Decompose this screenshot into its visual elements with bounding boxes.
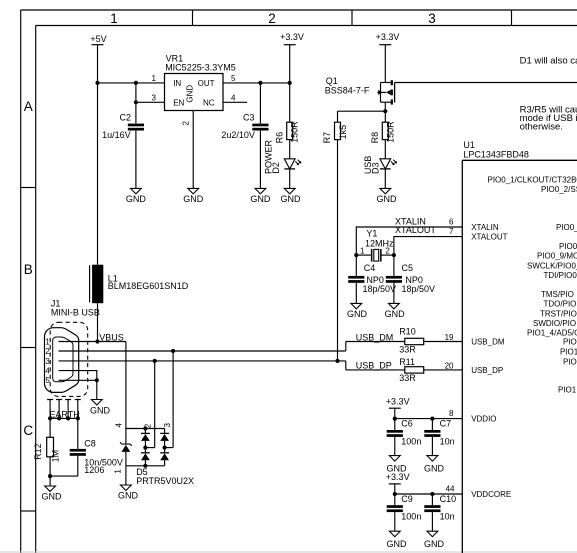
svg-text:18p/50V: 18p/50V xyxy=(402,284,436,294)
junction D5 right mid xyxy=(163,446,167,450)
junction D- to D5 xyxy=(171,349,175,353)
capacitor C10 xyxy=(424,494,456,531)
wire J1 pin2 USB D- xyxy=(59,350,346,352)
transistor Q1 xyxy=(325,76,395,105)
svg-text:2: 2 xyxy=(268,11,276,26)
junction VDDCORE/C9 xyxy=(393,492,397,496)
svg-text:150R: 150R xyxy=(385,121,395,143)
svg-text:EARTH: EARTH xyxy=(49,409,79,419)
+3.3V supply above Q1 xyxy=(376,32,400,83)
wire Q1 gate to right edge (to D1) xyxy=(395,82,577,84)
svg-text:C6: C6 xyxy=(401,419,413,429)
svg-text:D3: D3 xyxy=(370,163,380,175)
wire XTALIN xyxy=(356,227,462,255)
svg-text:USB_DP: USB_DP xyxy=(471,366,503,375)
svg-text:IN: IN xyxy=(173,79,181,88)
svg-text:1: 1 xyxy=(110,11,118,26)
svg-text:XTALOUT: XTALOUT xyxy=(471,232,507,241)
wire EARTH bus xyxy=(50,417,78,419)
svg-text:A: A xyxy=(24,99,33,114)
junctions EARTH bus xyxy=(48,416,80,420)
svg-text:USB_DP: USB_DP xyxy=(356,361,392,371)
svg-text:GND: GND xyxy=(126,194,147,204)
ground under C5 xyxy=(385,303,406,318)
svg-text:2: 2 xyxy=(181,120,190,125)
svg-text:R10: R10 xyxy=(399,327,416,337)
ground under C4 xyxy=(347,303,368,318)
svg-text:GND: GND xyxy=(387,539,408,549)
junction R7/USB_DP xyxy=(335,359,339,363)
ground under J1 xyxy=(90,400,111,416)
svg-text:2u2/10V: 2u2/10V xyxy=(221,130,255,140)
ground under VR1 xyxy=(183,188,204,203)
connector J1 MINI-B USB xyxy=(45,298,100,396)
svg-text:33R: 33R xyxy=(399,373,416,383)
ground under R12 xyxy=(42,486,63,501)
+3.3V supply VDDIO xyxy=(386,397,410,419)
svg-text:SWCLK/PIO0_: SWCLK/PIO0_ xyxy=(527,261,577,270)
svg-text:TDO/PIO: TDO/PIO xyxy=(544,300,577,309)
wire +5V rail to VR1 IN xyxy=(98,82,165,84)
svg-text:7: 7 xyxy=(449,227,454,236)
junction VBUS/L1 xyxy=(95,339,99,343)
IC U1 LPC1343FBD48 xyxy=(462,140,577,553)
wire J1 pin5 xyxy=(59,379,97,381)
svg-text:PIO0_9/MO: PIO0_9/MO xyxy=(537,252,577,261)
diode D5d lower right xyxy=(160,448,169,466)
voltage regulator VR1 xyxy=(152,53,236,125)
svg-text:100n: 100n xyxy=(401,512,421,522)
junction XTALOUT/C5 xyxy=(392,253,396,257)
svg-text:OUT: OUT xyxy=(198,79,215,88)
wire R7 down to USB_DP net xyxy=(337,140,339,361)
svg-text:XTALOUT: XTALOUT xyxy=(395,225,436,235)
svg-text:MINI-B USB: MINI-B USB xyxy=(51,308,100,318)
junction Q1 drain xyxy=(383,109,387,113)
junction D5 left mid xyxy=(143,446,147,450)
svg-text:C8: C8 xyxy=(84,438,96,448)
svg-text:4: 4 xyxy=(45,367,50,376)
ferrite bead L1 xyxy=(90,83,189,342)
wire link to right column xyxy=(165,447,174,449)
svg-text:XTALIN: XTALIN xyxy=(471,223,499,232)
svg-text:PIO0_6/: PIO0_6/ xyxy=(556,223,577,232)
capacitor C9 xyxy=(387,494,422,531)
svg-text:C3: C3 xyxy=(243,113,255,123)
wire D- link to left column xyxy=(145,447,154,449)
wire D3 to ground xyxy=(384,169,386,189)
svg-text:+5V: +5V xyxy=(90,34,106,44)
junction C10 xyxy=(430,492,434,496)
svg-text:R8: R8 xyxy=(370,132,380,144)
wire J1 pin3 USB D+ xyxy=(59,360,346,362)
svg-text:PIO0: PIO0 xyxy=(559,242,577,251)
svg-text:EN: EN xyxy=(173,98,184,107)
svg-text:PIO: PIO xyxy=(563,337,577,346)
svg-text:C9: C9 xyxy=(401,494,413,504)
svg-text:GND: GND xyxy=(185,85,194,103)
svg-text:GND: GND xyxy=(424,463,445,473)
resistor R12 xyxy=(33,437,61,462)
J1 shield pins xyxy=(47,400,81,419)
junction top rail xyxy=(143,426,147,430)
svg-text:1k5: 1k5 xyxy=(338,125,348,140)
junction D+ to D5 xyxy=(153,359,157,363)
svg-text:5: 5 xyxy=(45,376,50,385)
LED D2 POWER xyxy=(264,140,302,175)
svg-text:BLM18EG601SN1D: BLM18EG601SN1D xyxy=(108,281,189,291)
wire +3.3V node down to R6 xyxy=(289,83,291,122)
LED D3 USB xyxy=(363,156,396,175)
svg-text:BSS84-7-F: BSS84-7-F xyxy=(325,86,370,96)
svg-text:C: C xyxy=(23,423,33,438)
+3.3V supply at regulator output xyxy=(280,32,304,83)
svg-text:1: 1 xyxy=(152,74,157,83)
svg-text:44: 44 xyxy=(446,484,455,493)
svg-text:SWDIO/PIO: SWDIO/PIO xyxy=(533,319,576,328)
wire Q1 drain down xyxy=(384,102,386,111)
svg-text:TDI/PIO0: TDI/PIO0 xyxy=(544,271,577,280)
svg-text:10n: 10n xyxy=(440,512,455,522)
svg-text:1u/16V: 1u/16V xyxy=(102,130,131,140)
junction at +5V rail xyxy=(95,81,99,85)
capacitor C4 xyxy=(348,255,396,303)
diode D5b lower left xyxy=(141,448,150,466)
wire to ground xyxy=(49,476,51,486)
wire VR1 pin2 to ground xyxy=(192,111,194,189)
diode D5a upper left xyxy=(141,429,150,448)
svg-text:PIO1_4/AD5/C: PIO1_4/AD5/C xyxy=(527,329,577,338)
U1 pin numbers xyxy=(445,217,455,493)
svg-text:R11: R11 xyxy=(399,357,415,367)
diode array D5 PRTR5V0U2X xyxy=(114,423,194,486)
junction EN/C2 xyxy=(134,100,138,104)
svg-text:VDDCORE: VDDCORE xyxy=(471,490,511,499)
junction VDDIO/C6 xyxy=(393,417,397,421)
svg-text:GND: GND xyxy=(281,194,302,204)
svg-text:4: 4 xyxy=(231,93,236,102)
svg-text:18p/50V: 18p/50V xyxy=(363,284,397,294)
wire J1 pin1 VBUS xyxy=(59,341,126,343)
svg-text:+3.3V: +3.3V xyxy=(280,32,304,42)
capacitor C7 xyxy=(424,419,454,456)
svg-text:3: 3 xyxy=(152,93,157,102)
capacitor C8 xyxy=(70,438,123,476)
wire C8 top xyxy=(77,418,79,449)
ground under C2 xyxy=(126,188,147,203)
svg-text:1: 1 xyxy=(45,337,50,346)
svg-text:MIC5225-3.3YM5: MIC5225-3.3YM5 xyxy=(165,62,236,72)
svg-text:LPC1343FBD48: LPC1343FBD48 xyxy=(463,149,529,159)
svg-text:6: 6 xyxy=(449,217,454,226)
ground under D3 xyxy=(377,188,398,203)
wire R11 to U1 pin20 xyxy=(424,369,463,371)
junction C7 xyxy=(430,417,434,421)
svg-text:PIO1: PIO1 xyxy=(560,348,577,357)
wire jog D- xyxy=(345,342,347,352)
svg-text:C5: C5 xyxy=(402,263,414,273)
wire VDDCORE to U1 pin44 xyxy=(395,493,463,495)
svg-text:33R: 33R xyxy=(399,345,416,355)
junction bottom bus xyxy=(48,474,52,478)
wire R8 to D3 xyxy=(384,140,386,159)
wire D+ branch down to D5 pin3 xyxy=(154,361,156,448)
svg-text:USB_DM: USB_DM xyxy=(356,332,394,342)
note R3/R5 xyxy=(520,105,577,133)
ground under D5 xyxy=(118,485,139,500)
capacitor C3 xyxy=(221,83,268,188)
wire D2 to ground xyxy=(289,169,291,189)
wire VDDIO to U1 pin8 xyxy=(395,418,463,420)
svg-text:GND: GND xyxy=(183,194,204,204)
svg-text:1: 1 xyxy=(114,469,123,474)
svg-text:R6: R6 xyxy=(274,132,284,144)
svg-text:D1 will also cause: D1 will also cause xyxy=(520,55,577,66)
svg-text:PIO0_2/SS: PIO0_2/SS xyxy=(541,185,577,194)
svg-text:C4: C4 xyxy=(364,263,376,273)
svg-text:19: 19 xyxy=(445,333,454,342)
svg-text:PIO0_1/CLKOUT/CT32B0_M: PIO0_1/CLKOUT/CT32B0_M xyxy=(488,175,577,184)
resistor R7 xyxy=(322,122,348,143)
svg-text:GND: GND xyxy=(42,491,63,501)
svg-text:GND: GND xyxy=(250,194,271,204)
crystal Y1 xyxy=(356,228,394,261)
ground under D2 xyxy=(281,188,302,203)
svg-text:3: 3 xyxy=(428,11,436,26)
resistor R8 xyxy=(370,121,395,144)
svg-text:2: 2 xyxy=(45,347,50,356)
svg-text:+3.3V: +3.3V xyxy=(376,32,400,42)
svg-text:1M: 1M xyxy=(51,450,61,463)
svg-text:TMS/PIO: TMS/PIO xyxy=(541,290,574,299)
wire D- branch down to D5 pin2 xyxy=(172,351,174,448)
wire R10 to U1 pin19 xyxy=(424,341,463,343)
wire J1 pin4 xyxy=(59,371,97,381)
wire pin5 to ground xyxy=(96,380,98,399)
svg-text:TRST/PIO: TRST/PIO xyxy=(540,309,577,318)
ground under C10 xyxy=(424,531,445,549)
wire USB_DP to R11 xyxy=(346,369,405,371)
svg-text:NC: NC xyxy=(203,98,215,107)
junction +3.3V/R6 xyxy=(288,81,292,85)
svg-text:D2: D2 xyxy=(271,162,281,174)
junction pin4/pin5 xyxy=(95,378,99,382)
resistor R10 xyxy=(399,327,423,355)
svg-text:5: 5 xyxy=(231,74,236,83)
VR1 NC stub xyxy=(223,101,247,103)
svg-text:otherwise.: otherwise. xyxy=(520,122,563,133)
wire EARTH to R12 xyxy=(49,418,51,437)
capacitor C6 xyxy=(387,419,422,456)
svg-text:4: 4 xyxy=(114,423,123,428)
svg-text:GND: GND xyxy=(424,539,445,549)
resistor R6 xyxy=(274,121,299,144)
svg-text:B: B xyxy=(24,262,33,277)
svg-text:GND: GND xyxy=(118,490,139,500)
ground under C9 xyxy=(387,531,408,549)
wire jog D+ xyxy=(345,361,347,370)
capacitor C5 xyxy=(386,255,435,303)
svg-text:GND: GND xyxy=(385,309,406,319)
svg-text:20: 20 xyxy=(445,361,454,370)
junction at C2/EN branch xyxy=(134,81,138,85)
+3.3V supply VDDCORE xyxy=(386,472,410,494)
wire R12/C8 bottom bus xyxy=(50,475,78,477)
svg-text:USB_DM: USB_DM xyxy=(471,337,505,346)
wire VR1 OUT to +3.3V node xyxy=(223,82,290,84)
resistor R11 xyxy=(399,357,423,383)
svg-text:R12: R12 xyxy=(33,443,43,460)
wire EN to VR1 pin3 xyxy=(136,101,165,103)
wire branch down to EN xyxy=(135,83,137,102)
ground under C7 xyxy=(424,456,445,474)
svg-text:150R: 150R xyxy=(290,121,300,143)
svg-text:PIO1: PIO1 xyxy=(558,386,577,395)
wire drain to R7 xyxy=(338,110,386,112)
wire D5 pin1 to ground xyxy=(125,466,127,485)
svg-text:+3.3V: +3.3V xyxy=(386,472,410,482)
svg-text:C7: C7 xyxy=(440,419,452,429)
wire VBUS down to D5 pin4 xyxy=(125,342,127,429)
svg-text:GND: GND xyxy=(90,405,111,415)
svg-text:2: 2 xyxy=(385,246,390,255)
svg-text:1: 1 xyxy=(360,246,365,255)
svg-text:+3.3V: +3.3V xyxy=(386,397,410,407)
ground under C6 xyxy=(387,456,408,474)
diode D5c upper right xyxy=(160,429,169,448)
svg-text:3: 3 xyxy=(45,357,50,366)
svg-text:GND: GND xyxy=(347,309,368,319)
zener diode in D5 xyxy=(120,429,132,466)
U1 pin labels left side xyxy=(471,223,511,499)
svg-text:R7: R7 xyxy=(322,132,332,144)
wire R7 top stub xyxy=(337,111,339,122)
wire R12 bottom xyxy=(49,457,51,476)
wire R6 to D2 xyxy=(289,140,291,159)
svg-text:Y1: Y1 xyxy=(366,228,377,238)
wire USB_DM to R10 xyxy=(346,341,405,343)
svg-text:C2: C2 xyxy=(119,113,131,123)
svg-text:3: 3 xyxy=(163,423,172,428)
svg-text:Q1: Q1 xyxy=(326,76,338,86)
wire XTALOUT xyxy=(394,237,462,256)
wire D5 bottom rail xyxy=(126,465,165,467)
svg-text:PRTR5V0U2X: PRTR5V0U2X xyxy=(136,476,194,486)
svg-text:100n: 100n xyxy=(401,436,421,446)
junction XTALIN/C4 xyxy=(354,253,358,257)
ground under C3 xyxy=(250,188,271,203)
svg-text:VDDIO: VDDIO xyxy=(471,415,496,424)
wire R8 top stub xyxy=(384,111,386,122)
svg-text:VBUS: VBUS xyxy=(99,332,124,342)
wire D5 top rail xyxy=(126,428,165,430)
svg-text:C10: C10 xyxy=(440,494,457,504)
junction bottom rail xyxy=(143,464,147,468)
svg-text:PIO: PIO xyxy=(563,357,577,366)
capacitor C2 xyxy=(102,102,144,188)
svg-text:1206: 1206 xyxy=(84,465,104,475)
svg-text:GND: GND xyxy=(377,194,398,204)
+5V supply xyxy=(90,34,106,83)
svg-text:10n: 10n xyxy=(440,436,455,446)
junction C3 xyxy=(258,81,262,85)
svg-text:U1: U1 xyxy=(463,140,475,150)
svg-text:8: 8 xyxy=(449,409,454,418)
U1 right-side pin names (clipped) xyxy=(488,175,577,394)
